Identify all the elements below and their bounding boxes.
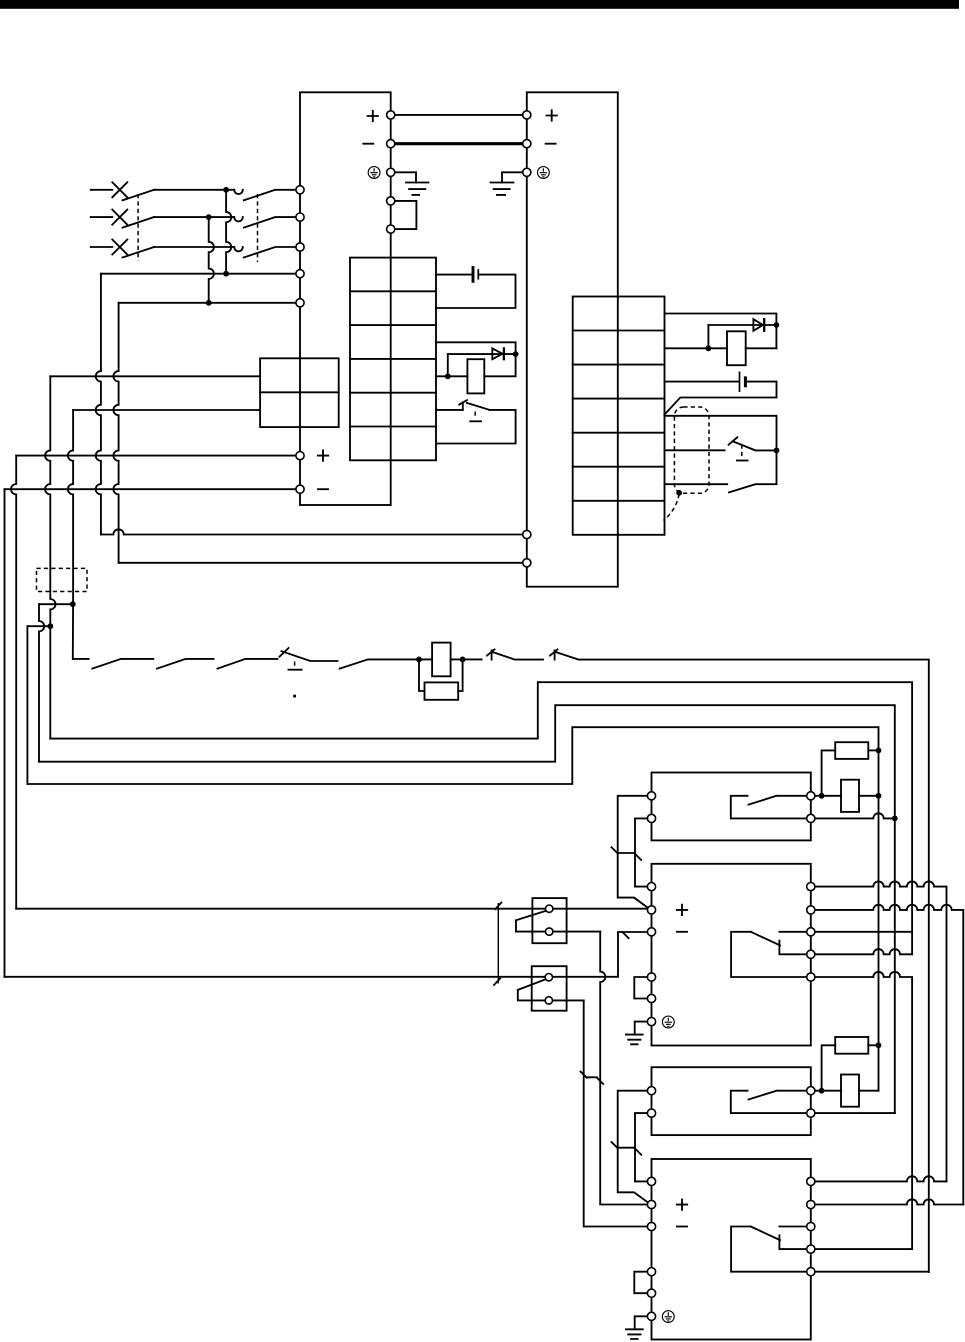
terminal amp2 PE (647, 1312, 655, 1320)
terminal amp1 L5 (647, 994, 655, 1002)
connector X1 blade (516, 911, 547, 921)
terminal amp1 U (807, 883, 815, 891)
wire L2 to contactor (154, 216, 209, 218)
wire vertical c2 with hops (68, 410, 73, 604)
contactor coil K1 (432, 643, 451, 677)
wire resistor out (868, 749, 878, 751)
servo amp 2 box (652, 1159, 811, 1340)
ground symbol PS (406, 183, 428, 195)
terminal K4 R1 (807, 792, 815, 800)
wire vertical feeder A with hops (96, 274, 101, 535)
wire L3 to contactor (154, 246, 234, 248)
wire resistor2 branch up (822, 1045, 836, 1090)
resistor R3 (835, 1037, 868, 1054)
terminal PS plus (387, 111, 395, 119)
relay K4 internal contact (731, 796, 807, 819)
wire chain to right bus (579, 660, 929, 1273)
wire vertical c4 drop (26, 626, 28, 784)
relay coil K2 (467, 359, 484, 393)
label plus drive (547, 110, 557, 120)
suppressor R1 (425, 682, 459, 699)
junction h626 (47, 623, 53, 629)
wire amp1 V phase with hops (815, 905, 963, 1205)
safety chain contact S1 blade (92, 659, 153, 669)
contactor K1 pole b hook (234, 217, 243, 221)
terminal amp2 W (807, 1222, 815, 1230)
terminal amp2 L1 (647, 1177, 655, 1185)
wire vertical c1 with hops (45, 376, 55, 626)
fuse F1 (112, 182, 127, 197)
contact K2a riser (462, 403, 464, 410)
wire K5 coil feed (815, 1090, 841, 1092)
contactor K1 pole b blade (244, 217, 296, 228)
loop C wire (27, 727, 878, 1090)
wire T1 feed upper (50, 375, 260, 377)
connector box X1 (532, 898, 566, 943)
wire feeder B horizontal to drive (119, 562, 523, 564)
terminal drive earth (523, 168, 531, 176)
wire K5 lower left drop (635, 1113, 647, 1181)
servo amp 1 box (652, 864, 811, 1046)
period mark (293, 695, 296, 698)
wire vertical c3 drop with hop (39, 604, 44, 762)
actuator dashed K2a (474, 412, 476, 419)
junction L1 (223, 187, 229, 193)
wire line5 (119, 302, 296, 304)
wire diode line (448, 353, 516, 355)
label minus PS output (318, 488, 328, 490)
wire vertical L2 branch with hops (209, 217, 214, 303)
wire vertical X2 drop (584, 1000, 648, 1226)
amp2 jumper link (634, 1272, 647, 1294)
amp1 jumper link (634, 977, 647, 999)
terminal amp2 B1 (807, 1245, 815, 1253)
wire TB2 row2 to coil (665, 347, 728, 349)
wire coil K1 out (451, 658, 482, 660)
terminal amp1 V (807, 906, 815, 914)
terminal amp2 Lminus (647, 1222, 655, 1230)
amp1 internal contact (731, 932, 807, 977)
contactor K1 pole c blade (244, 247, 296, 258)
capacitor C1 (472, 266, 475, 283)
wire K4 upper left drop (618, 796, 650, 910)
junction line4 (223, 271, 229, 277)
wire vertical L1 branch with hops (226, 190, 231, 274)
thermal contact cross (729, 437, 738, 444)
safety chain contact S3 blade (218, 659, 278, 669)
terminal K5 L1 (647, 1087, 655, 1095)
terminal amp2 L4 (647, 1268, 655, 1276)
thermal contact bar (737, 460, 748, 462)
relay coil K5 (841, 1075, 859, 1107)
amp2 internal contact (731, 1227, 807, 1272)
wire P24 bus (391, 114, 527, 116)
estop cross (280, 648, 289, 657)
ground symbol drive (491, 183, 514, 195)
ground symbol amp2 (626, 1329, 643, 1339)
amp2 earth stub (635, 1316, 648, 1329)
wire vertical minus rail drop (4, 489, 6, 977)
PE symbol drive (538, 167, 550, 179)
junction resistor right (876, 748, 882, 754)
box T1 middle line (260, 391, 339, 393)
wire vertical c2 chain drop (73, 604, 89, 659)
terminal amp1 PE (647, 1018, 655, 1026)
wire resistor2 out (868, 1044, 878, 1046)
cable screen dashed box (674, 407, 709, 493)
wire L1 to contactor (154, 189, 226, 191)
junction L2 (206, 214, 212, 220)
wire amp1 brake1 with hops (815, 949, 912, 954)
amp1 earth stub (635, 1022, 648, 1035)
wire plus long feed (16, 908, 647, 910)
label plus PS output (318, 450, 328, 460)
wire TB2 row5 to thermal contact (665, 449, 725, 451)
cable mark drive1 pair (612, 847, 642, 860)
wire K4 coil out (859, 795, 879, 797)
PE symbol PS (368, 167, 380, 179)
connector X2 blade (518, 980, 545, 990)
junction screen (676, 490, 682, 496)
terminal PS L2 (296, 213, 304, 221)
wire K4 lower out with hop (815, 813, 895, 818)
terminal drive in2 (523, 559, 531, 567)
label minus drive (546, 143, 556, 145)
terminal PS 24P (296, 452, 304, 460)
junction K4 coil right (876, 793, 882, 799)
PE symbol amp2 (662, 1311, 674, 1323)
cable mark feed pair (581, 1072, 604, 1084)
terminal amp2 V (807, 1200, 815, 1208)
terminal drive plus (523, 111, 531, 119)
aux contact K6 blade (493, 652, 543, 660)
terminal PS N2 (296, 299, 304, 307)
control transformer box T1 (260, 358, 339, 427)
terminal PS earth (387, 168, 395, 176)
relay coil K4 (841, 780, 859, 812)
capacitor C1 plate2 (477, 269, 479, 279)
terminal K4 R2 (807, 814, 815, 822)
wire 24V plus distribution (16, 455, 296, 457)
wire amp1 W phase (815, 931, 912, 933)
aux contact K6 tick (487, 649, 495, 655)
wire feeder A horizontal to drive with hop (101, 529, 523, 534)
loop A wire (50, 682, 912, 954)
cable mark drive2 pair (612, 1142, 642, 1155)
PE symbol amp1 (662, 1016, 674, 1028)
terminal amp1 Lplus (647, 906, 655, 914)
wire TB2 diode line (708, 324, 776, 326)
wire K5 coil out (859, 1090, 879, 1092)
wire 0V bus (bold) (392, 142, 526, 145)
terminal K4 L2 (647, 814, 655, 822)
wire amp2 brake1 (815, 1248, 912, 1250)
contactor K1 pole a blade (244, 190, 296, 201)
wire phase L3 in (91, 246, 113, 248)
label minus amp1 (677, 931, 687, 933)
wire amp2 U phase with hops (815, 1176, 947, 1181)
contactor K1 pole c hook (234, 247, 243, 251)
diode D1 (492, 348, 504, 359)
wire TB2 row1 feed (665, 314, 777, 349)
terminal table TB2 (573, 297, 665, 535)
wire TB2 row4 feed (665, 416, 777, 484)
terminal amp1 B2 (807, 973, 815, 981)
junction D2 cathode (774, 322, 780, 328)
terminal PS 24N (296, 485, 304, 493)
safety chain contact S2 blade (157, 659, 214, 669)
relay K5 internal contact (731, 1091, 807, 1113)
brake contact blade (729, 484, 777, 492)
fuse F2 (112, 210, 127, 225)
label minus amp2 (677, 1226, 687, 1228)
estop bar (289, 669, 302, 671)
wire vertical plus rail drop (11, 456, 16, 909)
terminal PS L3 (296, 243, 304, 251)
terminal amp1 B1 (807, 950, 815, 958)
thermal contact dashed actuator (741, 445, 743, 459)
wire X2 out (553, 999, 584, 1001)
ground symbol amp1 (626, 1035, 643, 1045)
relay box K5 (652, 1067, 811, 1135)
contact K2a tick (459, 400, 467, 405)
wire interlock h626 (27, 625, 50, 627)
chain contact S5 blade (340, 659, 433, 668)
wire battery loop return (665, 382, 777, 415)
wire amp2 V phase with hops (815, 1199, 963, 1204)
terminal K5 R2 (807, 1109, 815, 1117)
junction coil branch (416, 657, 422, 663)
switch blade Q1c (123, 247, 155, 258)
wire K5 upper left drop (618, 1091, 650, 1204)
fuse F3 (112, 240, 127, 255)
resistor R2 (835, 742, 868, 759)
wire minus long feed (5, 932, 648, 977)
wire diode branch left leg (447, 354, 449, 376)
terminal X2 pin2 (545, 997, 552, 1004)
terminal PS minus (387, 140, 395, 148)
wire interlock h604 (39, 603, 73, 605)
wire coil K2 to vertical (484, 354, 515, 376)
suppressor return wire (458, 659, 462, 691)
aux contact K6 riser (491, 650, 493, 659)
servo drive module outline (527, 92, 618, 586)
label plus amp1 (677, 905, 687, 915)
junction row5 node (774, 448, 780, 454)
cable slash bottom (494, 978, 500, 985)
label plus amp2 (677, 1199, 687, 1209)
jumper link PS terminals (395, 201, 417, 229)
linkage K1 dashed (257, 194, 259, 262)
junction coil out (460, 657, 466, 663)
terminal drive minus (523, 140, 531, 148)
suppressor branch wire (419, 659, 425, 691)
wire vertical c1 lower (49, 626, 51, 738)
junction K4 lower bus (892, 816, 898, 822)
relay box K4 (652, 773, 811, 841)
terminal X1 pin1 (546, 905, 553, 912)
terminal X2 pin1 (545, 974, 552, 981)
terminal table TB1 (350, 258, 436, 461)
wire TB2 row3 to battery (665, 381, 739, 383)
terminal amp1 L1 (647, 883, 655, 891)
wire amp1 brake2 with hops (815, 972, 912, 1249)
diode D2 (753, 319, 764, 331)
cable bundle line left pair (497, 903, 499, 984)
wire TB2 row6 stub (665, 483, 728, 485)
junction diode anode leg (445, 373, 451, 379)
wire 0V minus distribution (5, 488, 296, 490)
wire TB1 row1 to capacitor (436, 274, 472, 276)
junction h604 (70, 601, 76, 607)
connector box X2 (532, 966, 567, 1011)
wire phase L2 in (91, 216, 113, 218)
terminal amp1 Lminus (647, 928, 655, 936)
switch blade Q1b (123, 217, 155, 228)
terminal K5 R1 (807, 1087, 815, 1095)
wire vertical feeder B with hops (113, 303, 118, 563)
wire X1 out (553, 931, 600, 933)
terminal PS L1 (296, 186, 304, 194)
linkage Q1 dashed (137, 194, 139, 261)
terminal PS aux2 (387, 225, 395, 233)
terminal amp2 Lplus (647, 1200, 655, 1208)
wire T1 feed lower (73, 409, 260, 411)
wire diode anode leg (707, 325, 709, 348)
slash minus corner (622, 932, 628, 938)
label minus PS (363, 143, 373, 145)
wire TB1 row3 branch (436, 342, 516, 354)
power supply module PS outline (300, 92, 391, 505)
wire vertical X1 drop with hop (600, 932, 647, 1205)
wire amp1 U phase with hops (815, 881, 947, 1181)
battery BT1 (740, 372, 746, 393)
aux contact K7 blade (556, 652, 579, 660)
connector X1 lead (516, 921, 545, 932)
wire L2 dot to contactor hook (209, 216, 235, 218)
wire K4 lower left drop (635, 818, 647, 886)
terminal amp1 W (807, 928, 815, 936)
junction diode cathode (513, 351, 519, 357)
terminal X1 pin2 (546, 928, 553, 935)
wire K4 coil feed (815, 795, 841, 797)
terminal amp2 U (807, 1177, 815, 1185)
cable slash top (495, 903, 501, 910)
terminal drive in1 (523, 530, 531, 538)
wire contact to row6 loop (436, 410, 516, 444)
contactor K1 pole a hook (234, 190, 243, 194)
terminal K4 L1 (647, 792, 655, 800)
junction resistor2 right (876, 1042, 882, 1048)
loop B wire (39, 705, 895, 1113)
wire line4 (101, 273, 296, 275)
wire K5 lower out (815, 1112, 895, 1114)
junction K4 coil left (819, 793, 825, 799)
junction K5 coil left (819, 1088, 825, 1094)
terminal amp1 L4 (647, 973, 655, 981)
terminal amp2 B2 (807, 1268, 815, 1276)
wire capacitor loop back to row2 (436, 275, 516, 308)
terminal amp2 L5 (647, 1289, 655, 1297)
aux contact K7 riser (554, 650, 556, 659)
wire coil K3 out (746, 347, 777, 349)
terminal K5 L2 (647, 1109, 655, 1117)
label plus PS (368, 111, 378, 121)
terminal PS N1 (296, 270, 304, 278)
wire L1 dot to contactor hook (226, 189, 234, 191)
wire TB1 row5 to contact (436, 409, 463, 411)
thermal contact blade (733, 441, 777, 450)
aux contact K7 tick (550, 649, 558, 655)
actuator bar K2a (470, 420, 481, 422)
junction line5 (206, 300, 212, 306)
contact K2a blade (467, 403, 490, 410)
wire resistor branch up (822, 750, 836, 795)
wire PS earth stub (395, 172, 416, 182)
cable bundle dashed box left (37, 568, 88, 591)
title bar (0, 0, 959, 9)
estop dashed actuator (294, 662, 296, 669)
wire TB1 row4 to coil (436, 375, 467, 377)
switch blade Q1a (123, 190, 155, 201)
wire drive earth stub (502, 172, 523, 182)
estop contact blade (282, 651, 338, 661)
connector X2 lead (518, 990, 545, 1000)
cable screen dashed drain (664, 494, 680, 521)
terminal PS aux1 (387, 197, 395, 205)
wire phase L1 in (91, 189, 113, 191)
relay coil K3 (727, 331, 746, 365)
junction D2 anode (706, 345, 712, 351)
wire amp2 brake2 (815, 1271, 929, 1273)
